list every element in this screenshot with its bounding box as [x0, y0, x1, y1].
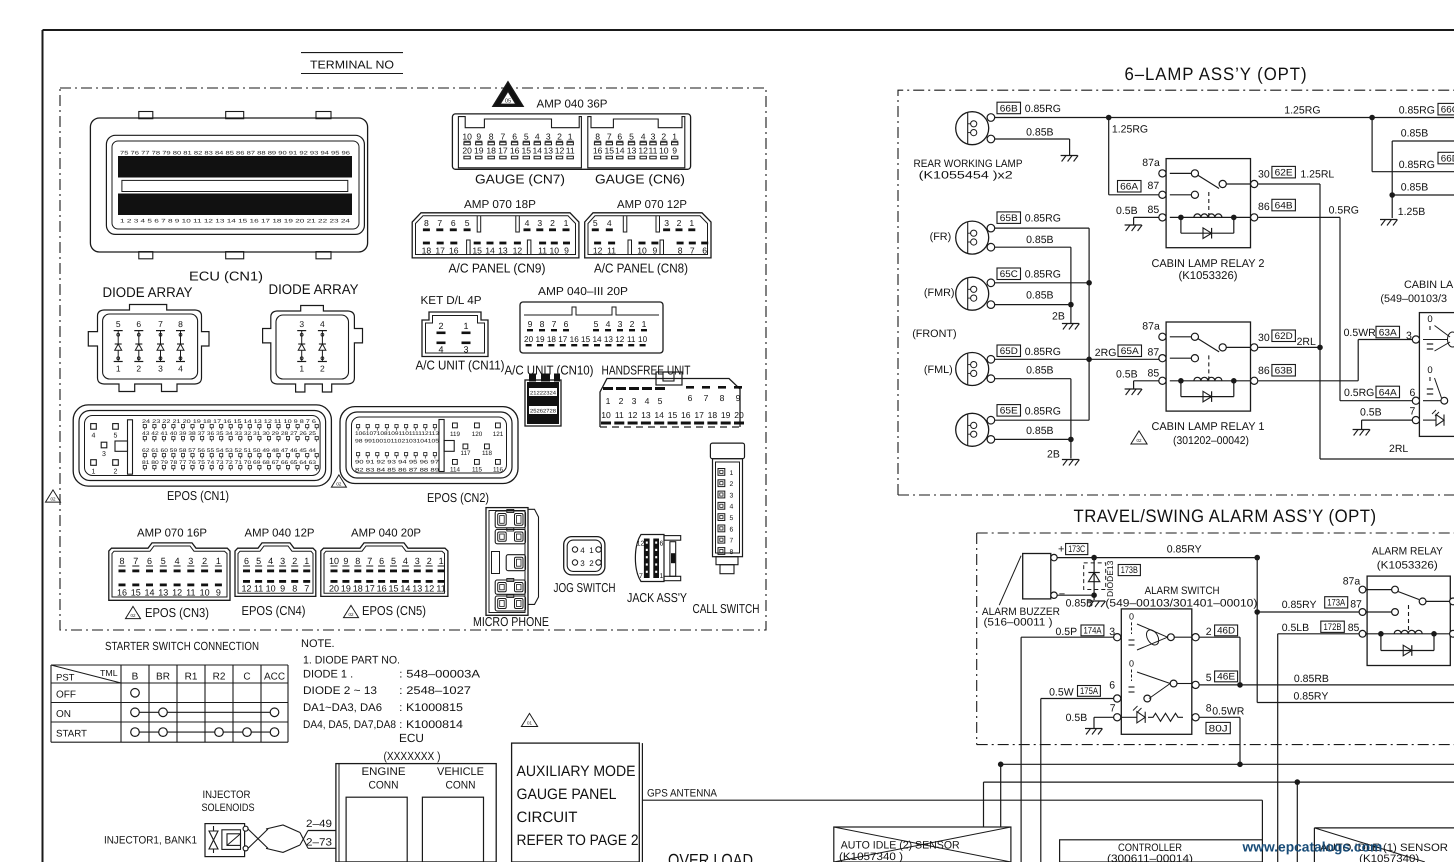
junction 2RG [1086, 357, 1092, 363]
svg-text:0.5B: 0.5B [1360, 407, 1382, 419]
svg-text:3: 3 [537, 218, 542, 228]
svg-text:0.5RG: 0.5RG [1344, 387, 1374, 399]
svg-text:0.85B: 0.85B [1401, 127, 1428, 139]
svg-text:20: 20 [329, 584, 339, 594]
svg-text:: K1000815: : K1000815 [399, 702, 463, 714]
svg-text:ALARM RELAY: ALARM RELAY [1372, 546, 1443, 558]
svg-text:9: 9 [528, 319, 533, 329]
svg-text:2RG: 2RG [1095, 347, 1117, 359]
terminal box 173C [1066, 544, 1088, 555]
terminal box 46E [1215, 671, 1238, 682]
svg-text:EPOS (CN3): EPOS (CN3) [145, 605, 209, 620]
ground 2B upper [1062, 323, 1079, 325]
svg-text:13: 13 [641, 410, 651, 420]
svg-text:AMP 070 12P: AMP 070 12P [617, 199, 687, 211]
svg-text:3: 3 [463, 345, 468, 355]
wire 0.5RG 64A to switch pin6 [1340, 400, 1412, 402]
svg-text:11: 11 [436, 584, 445, 594]
svg-text:18: 18 [422, 245, 432, 255]
svg-text:8: 8 [355, 556, 360, 566]
svg-text:1: 1 [730, 470, 734, 477]
svg-text:13: 13 [158, 588, 168, 598]
svg-text:62 61 60 59 58 57 56 55 54 53: 62 61 60 59 58 57 56 55 54 53 52 51 50 4… [142, 448, 316, 454]
svg-text:AMP 070 18P: AMP 070 18P [464, 199, 536, 211]
junction FMR ground [1068, 302, 1074, 308]
svg-text:85: 85 [1348, 622, 1360, 634]
svg-text:2: 2 [630, 319, 635, 329]
svg-text:6: 6 [1109, 680, 1115, 692]
svg-text:87: 87 [1148, 180, 1160, 192]
svg-text:EPOS (CN5): EPOS (CN5) [362, 603, 426, 618]
svg-text:DA4, DA5, DA7,DA8: DA4, DA5, DA7,DA8 [303, 719, 396, 731]
svg-text:AUTO IDLE (2) SENSOR: AUTO IDLE (2) SENSOR [841, 839, 960, 851]
connector A/C PANEL (CN8) [585, 213, 711, 258]
connector DIODE ARRAY 2 [263, 306, 363, 393]
svg-text:4: 4 [175, 556, 180, 566]
wire GPS antenna to controller [643, 799, 1262, 801]
svg-text:4: 4 [178, 364, 183, 374]
wire relay2 86 0.5RG [1258, 216, 1340, 218]
svg-text:3: 3 [730, 492, 734, 499]
svg-text:87a: 87a [1142, 321, 1160, 333]
warning triangle 05 [493, 82, 523, 107]
connector A/C PANEL (CN9) [412, 213, 579, 258]
svg-text:11: 11 [254, 584, 263, 594]
junction at 1.25RG tap [1106, 115, 1112, 121]
svg-text:1: 1 [672, 132, 677, 142]
svg-text:2: 2 [320, 364, 325, 374]
block ECU ENGINE/VEHICLE CONN [336, 764, 496, 862]
wire 0.85B FML [995, 378, 1071, 380]
svg-text:(FMR): (FMR) [924, 287, 955, 299]
svg-text:6: 6 [564, 319, 569, 329]
connector ECU (CN1) [90, 112, 367, 259]
svg-text:0.85B: 0.85B [1401, 182, 1428, 194]
svg-text:INJECTOR1, BANK1: INJECTOR1, BANK1 [104, 835, 197, 847]
wire 65B 0.85RG [995, 227, 1090, 229]
note DIODE PART NO [301, 638, 481, 731]
svg-text:6: 6 [451, 218, 456, 228]
dashed boundary TRAVEL/SWING ALARM ASS'Y [977, 533, 1454, 745]
wire alarm pin2 46D [1199, 636, 1240, 638]
wire right edge branch 0.85RG second pair [1371, 118, 1373, 172]
wire 1.25RG vertical to relay 2 pin 87 [1108, 118, 1110, 195]
terminal box 63B [1272, 365, 1296, 377]
svg-text:R1: R1 [185, 672, 198, 683]
svg-text:GPS ANTENNA: GPS ANTENNA [647, 788, 718, 800]
svg-text:7: 7 [367, 556, 372, 566]
ground rear working lamp [1061, 155, 1078, 157]
svg-text:VEHICLE: VEHICLE [437, 766, 484, 778]
svg-text:0.85RY: 0.85RY [1282, 599, 1317, 611]
svg-text:CONN: CONN [369, 780, 399, 792]
svg-text:1: 1 [642, 319, 647, 329]
svg-text:4: 4 [641, 132, 646, 142]
terminal box 62D [1272, 330, 1296, 342]
svg-text:14: 14 [533, 146, 543, 156]
svg-text:114: 114 [450, 467, 461, 474]
connector MICRO PHONE [486, 508, 539, 616]
svg-text:5: 5 [114, 432, 118, 439]
svg-text:0.5W: 0.5W [1049, 687, 1074, 699]
svg-text:BR: BR [156, 672, 170, 683]
terminal box 65A [1118, 345, 1142, 357]
svg-text:2: 2 [619, 396, 624, 406]
wire 0.85B rear lamp to ground [995, 138, 1070, 140]
svg-text:+: + [1058, 544, 1064, 556]
svg-text:CABIN LAM: CABIN LAM [1404, 279, 1454, 291]
wire 65E 0.85RG [995, 419, 1090, 421]
svg-text:AMP 040–III 20P: AMP 040–III 20P [538, 286, 628, 298]
svg-text:11: 11 [607, 245, 616, 255]
svg-text:5: 5 [256, 556, 261, 566]
svg-text:3: 3 [651, 132, 656, 142]
svg-text:2: 2 [661, 132, 666, 142]
svg-text:19: 19 [721, 410, 731, 420]
svg-text:02: 02 [348, 612, 354, 617]
svg-text:9: 9 [736, 393, 741, 403]
svg-text:12: 12 [513, 245, 523, 255]
svg-text:4: 4 [525, 218, 530, 228]
svg-text:HANDSFREE UNIT: HANDSFREE UNIT [602, 363, 691, 378]
svg-text:1: 1 [439, 556, 444, 566]
svg-text:14: 14 [592, 335, 602, 344]
svg-text:13: 13 [627, 146, 637, 156]
svg-text:10: 10 [659, 146, 669, 156]
svg-text:DIODE13: DIODE13 [1105, 560, 1115, 597]
table STARTER SWITCH CONNECTION [51, 639, 288, 742]
svg-text:4: 4 [320, 319, 325, 329]
svg-text:SOLENOIDS: SOLENOIDS [202, 802, 255, 814]
svg-text:(549–00103/3: (549–00103/3 [1380, 293, 1447, 305]
svg-text:2: 2 [730, 481, 734, 488]
svg-text:2RL: 2RL [1297, 336, 1316, 348]
svg-text:173A: 173A [1327, 598, 1346, 609]
svg-text:64A: 64A [1379, 387, 1398, 398]
svg-text:1: 1 [606, 396, 611, 406]
connector A/C UNIT (CN11) [422, 312, 488, 357]
connector HANDSFREE UNIT [600, 372, 744, 427]
svg-text:8: 8 [1206, 703, 1212, 715]
svg-text:13: 13 [498, 245, 508, 255]
svg-text:16: 16 [681, 410, 691, 420]
svg-text:1.25B: 1.25B [1398, 206, 1425, 218]
svg-text:2: 2 [438, 321, 443, 331]
svg-text:OVER LOAD: OVER LOAD [668, 850, 753, 862]
svg-text:(516–00011 ): (516–00011 ) [984, 617, 1053, 629]
svg-text:JACK ASS'Y: JACK ASS'Y [627, 590, 687, 605]
block AUXILIARY MODE GAUGE PANEL CIRCUIT [512, 743, 643, 862]
svg-text:4: 4 [730, 504, 734, 511]
svg-text:3: 3 [1109, 626, 1115, 638]
svg-text:ACC: ACC [264, 672, 285, 683]
terminal box 80J [1206, 722, 1230, 733]
svg-text:16: 16 [377, 584, 387, 594]
svg-text:1: 1 [304, 556, 309, 566]
svg-text:0.5B: 0.5B [1116, 205, 1138, 217]
svg-text:7: 7 [501, 132, 506, 142]
svg-text:14: 14 [144, 588, 154, 598]
svg-text:25262728: 25262728 [530, 409, 556, 415]
svg-text:EPOS (CN4): EPOS (CN4) [242, 603, 306, 618]
svg-text:6: 6 [702, 245, 707, 255]
block AUTO IDLE (2) SENSOR (K1057340) [834, 827, 1011, 862]
svg-text:: 2548–1027: : 2548–1027 [399, 685, 471, 697]
warning triangle 02 at EPOS CN1 [331, 475, 346, 487]
svg-text:15: 15 [668, 410, 678, 420]
svg-text:3: 3 [1406, 330, 1412, 342]
terminal box 62E [1272, 166, 1296, 178]
svg-text:7: 7 [730, 538, 734, 545]
svg-text:TML: TML [100, 668, 118, 678]
svg-text:10: 10 [200, 588, 210, 598]
svg-text:12: 12 [424, 584, 434, 594]
svg-text:0.85RG: 0.85RG [1025, 103, 1061, 115]
junction FMR feed [1086, 280, 1092, 286]
svg-text:: 548–00003A: : 548–00003A [399, 669, 481, 681]
svg-text:3: 3 [102, 451, 106, 458]
svg-text:18: 18 [353, 584, 363, 594]
svg-text:16: 16 [510, 146, 520, 156]
svg-text:2B: 2B [1047, 449, 1060, 461]
ground alarm switch [1085, 728, 1102, 730]
terminal box 66C at right edge [1438, 103, 1454, 115]
svg-text:11: 11 [538, 245, 547, 255]
svg-text:REAR WORKING LAMP: REAR WORKING LAMP [914, 158, 1023, 170]
svg-text:1.25RG: 1.25RG [1112, 124, 1148, 136]
connector EPOS (CN1) [73, 405, 331, 486]
svg-text:2: 2 [136, 364, 141, 374]
svg-text:30: 30 [1258, 332, 1270, 344]
svg-text:17: 17 [558, 335, 568, 344]
svg-text:66A: 66A [1120, 182, 1139, 193]
wire 66B 0.85RG / 1.25RG bus [995, 117, 1454, 119]
svg-text:7: 7 [158, 319, 163, 329]
terminal box 173B [1118, 565, 1140, 576]
svg-text:172B: 172B [1324, 622, 1342, 633]
svg-text:12: 12 [628, 410, 638, 420]
connector EPOS (CN4) [235, 543, 316, 597]
svg-text:0: 0 [1129, 658, 1134, 668]
dashed harness boundary (left section) [60, 88, 766, 630]
svg-text:87a: 87a [1142, 157, 1160, 169]
svg-text:7: 7 [1410, 406, 1416, 418]
svg-text:14: 14 [654, 410, 664, 420]
svg-text:02: 02 [50, 496, 56, 501]
svg-text:6: 6 [379, 556, 384, 566]
svg-text:12: 12 [637, 540, 645, 547]
wire alarm relay 85 0.5LB [1278, 633, 1359, 635]
wire 0.85B pair at right edge [1392, 140, 1454, 142]
svg-text:8: 8 [595, 132, 600, 142]
svg-text:10: 10 [329, 556, 339, 566]
svg-text:GAUGE (CN7): GAUGE (CN7) [475, 172, 565, 187]
block CONTROLLER (300611-00014) [1060, 840, 1263, 862]
svg-text:A/C UNIT (CN11): A/C UNIT (CN11) [416, 358, 505, 373]
svg-text:(K1053326): (K1053326) [1179, 270, 1238, 282]
svg-text:5: 5 [730, 515, 734, 522]
svg-text:4: 4 [438, 345, 443, 355]
svg-text:TRAVEL/SWING ALARM ASS’Y (OPT): TRAVEL/SWING ALARM ASS’Y (OPT) [1074, 506, 1377, 526]
svg-text:16: 16 [593, 146, 603, 156]
svg-text:63A: 63A [1379, 327, 1398, 338]
svg-text:DIODE 2 ~ 13: DIODE 2 ~ 13 [303, 685, 377, 697]
svg-text:46D: 46D [1217, 625, 1235, 636]
svg-text:1.25RL: 1.25RL [1300, 169, 1334, 181]
svg-text:5: 5 [465, 218, 470, 228]
svg-text:AUXILIARY MODE: AUXILIARY MODE [517, 763, 636, 780]
svg-text:ECU (CN1): ECU (CN1) [189, 269, 263, 284]
svg-text:(K1055454 )x2: (K1055454 )x2 [919, 170, 1013, 182]
svg-text:121: 121 [493, 431, 504, 438]
svg-text:2B: 2B [1052, 311, 1065, 323]
svg-text:86: 86 [1258, 201, 1270, 213]
svg-text:2–49: 2–49 [306, 818, 332, 830]
svg-text:62D: 62D [1275, 331, 1293, 342]
svg-text:0.85B: 0.85B [1026, 234, 1053, 246]
svg-text:A/C PANEL (CN8): A/C PANEL (CN8) [594, 261, 688, 276]
connector EPOS (CN2) [340, 407, 518, 484]
svg-text:MICRO PHONE: MICRO PHONE [473, 614, 549, 629]
dashed boundary 6-LAMP ASS'Y [898, 90, 1454, 495]
svg-text:8: 8 [730, 549, 734, 556]
svg-text:118: 118 [482, 450, 493, 457]
svg-text:3: 3 [415, 556, 420, 566]
terminal box 66B [997, 102, 1021, 114]
svg-text:10: 10 [550, 245, 560, 255]
svg-text:8: 8 [424, 218, 429, 228]
svg-text:5: 5 [391, 556, 396, 566]
svg-text:01: 01 [527, 721, 533, 726]
svg-text:6: 6 [1410, 387, 1416, 399]
svg-text:11: 11 [649, 146, 658, 156]
svg-text:7: 7 [437, 218, 442, 228]
svg-text:16: 16 [449, 245, 459, 255]
svg-text:1: 1 [216, 556, 221, 566]
svg-text:18: 18 [486, 146, 496, 156]
svg-text:6: 6 [136, 319, 141, 329]
svg-text:87: 87 [1350, 599, 1362, 611]
svg-text:15: 15 [131, 588, 141, 598]
svg-text:0.85B: 0.85B [1066, 598, 1093, 610]
svg-text:www.epcatalogs.com: www.epcatalogs.com [1242, 840, 1383, 855]
svg-text:4: 4 [535, 132, 540, 142]
svg-text:0.85RG: 0.85RG [1025, 213, 1061, 225]
terminal box 66A [1118, 181, 1142, 193]
svg-text:0.85B: 0.85B [1026, 425, 1053, 437]
wire alarm pin5 0.85RB [1199, 684, 1454, 686]
svg-text:1: 1 [564, 218, 569, 228]
svg-text:15: 15 [388, 584, 398, 594]
svg-text:AMP 040 20P: AMP 040 20P [351, 528, 421, 540]
svg-text:2–73: 2–73 [306, 837, 332, 849]
svg-text:ENGINE: ENGINE [362, 766, 406, 778]
ground buzzer [1088, 600, 1105, 602]
wire 65D 0.85RG 2RG to relay1 87 [995, 358, 1159, 360]
svg-text:0.85RB: 0.85RB [1294, 673, 1329, 685]
svg-text:24 23 22 21 20 19 18 17 16 15: 24 23 22 21 20 19 18 17 16 15 14 13 12 1… [142, 419, 316, 425]
svg-text:6–LAMP ASS’Y (OPT): 6–LAMP ASS’Y (OPT) [1125, 64, 1308, 84]
svg-text:0.5RG: 0.5RG [1329, 205, 1359, 217]
svg-text:175A: 175A [1080, 686, 1099, 697]
svg-text:19: 19 [535, 335, 545, 344]
svg-text:3: 3 [158, 364, 163, 374]
ground 2B lower [1062, 459, 1079, 461]
svg-text:173B: 173B [1121, 565, 1138, 576]
svg-text:3: 3 [299, 319, 304, 329]
svg-text:3: 3 [618, 319, 623, 329]
svg-text:02: 02 [336, 481, 342, 486]
svg-text:9: 9 [343, 556, 348, 566]
lamp (FMR) front lamp [956, 277, 989, 310]
junction 0.85B right [1389, 192, 1395, 198]
svg-text:5: 5 [593, 218, 598, 228]
svg-text:8: 8 [540, 319, 545, 329]
wire 0.85B FMR to 2B ground [995, 304, 1071, 306]
switch ALARM SWITCH (549-00103/301401-00010) [1114, 609, 1200, 734]
svg-text:GAUGE PANEL: GAUGE PANEL [517, 786, 617, 803]
svg-text:87a: 87a [1343, 576, 1361, 588]
terminal box 46D [1215, 625, 1238, 636]
svg-text:(300611–00014): (300611–00014) [1107, 853, 1193, 862]
svg-text:ON: ON [56, 709, 71, 720]
svg-text:6: 6 [147, 556, 152, 566]
ground relay1 [1125, 388, 1142, 390]
svg-text:12: 12 [638, 146, 648, 156]
svg-text:30: 30 [1258, 169, 1270, 181]
wire alarm pin7 0.5B ground [1094, 716, 1114, 718]
svg-text:0: 0 [1129, 611, 1134, 621]
svg-text:CONN: CONN [446, 780, 476, 792]
svg-text:1.25RG: 1.25RG [1284, 105, 1320, 117]
svg-text:14: 14 [485, 245, 495, 255]
svg-text:1: 1 [463, 321, 468, 331]
connector EPOS (CN3) [109, 543, 230, 600]
svg-text:87: 87 [1148, 347, 1160, 359]
ground 1.25B [1380, 219, 1397, 221]
lamp 65E front lamp [956, 413, 989, 446]
svg-text:(FRONT): (FRONT) [912, 328, 956, 340]
relay ALARM RELAY (K1053326) [1359, 576, 1454, 665]
svg-text:4: 4 [268, 556, 273, 566]
svg-text:1: 1 [660, 573, 664, 580]
svg-text:65B: 65B [1000, 213, 1018, 224]
svg-text:81 80 79 78 77 76 75 74 73 72: 81 80 79 78 77 76 75 74 73 72 71 70 69 6… [142, 460, 316, 466]
svg-text:DIODE ARRAY: DIODE ARRAY [103, 284, 194, 300]
svg-text:4: 4 [580, 546, 585, 555]
junction 0.85RY branch [1254, 555, 1260, 561]
wire alarm pin6 0.5W [1041, 698, 1114, 700]
svg-text:STARTER SWITCH CONNECTION: STARTER SWITCH CONNECTION [105, 639, 259, 653]
svg-text:19: 19 [341, 584, 351, 594]
svg-text:(301202–00042): (301202–00042) [1173, 435, 1249, 447]
svg-text:18: 18 [547, 335, 557, 344]
svg-text:4: 4 [92, 432, 96, 439]
svg-text:0.5WR: 0.5WR [1212, 706, 1245, 718]
svg-text:2: 2 [550, 218, 555, 228]
svg-text:85: 85 [1148, 204, 1160, 216]
svg-text:8: 8 [720, 393, 725, 403]
svg-text:B: B [132, 672, 139, 683]
svg-text:10: 10 [462, 132, 472, 142]
svg-text:CABIN LAMP RELAY 1: CABIN LAMP RELAY 1 [1152, 421, 1265, 433]
lamp REAR WORKING LAMP (K1055454)x2 [956, 112, 989, 145]
svg-text:(FML): (FML) [924, 364, 953, 376]
svg-text:0: 0 [1427, 365, 1432, 376]
svg-text:7: 7 [304, 584, 309, 594]
svg-text:8: 8 [119, 556, 124, 566]
svg-text:1. DIODE PART NO.: 1. DIODE PART NO. [303, 655, 400, 667]
